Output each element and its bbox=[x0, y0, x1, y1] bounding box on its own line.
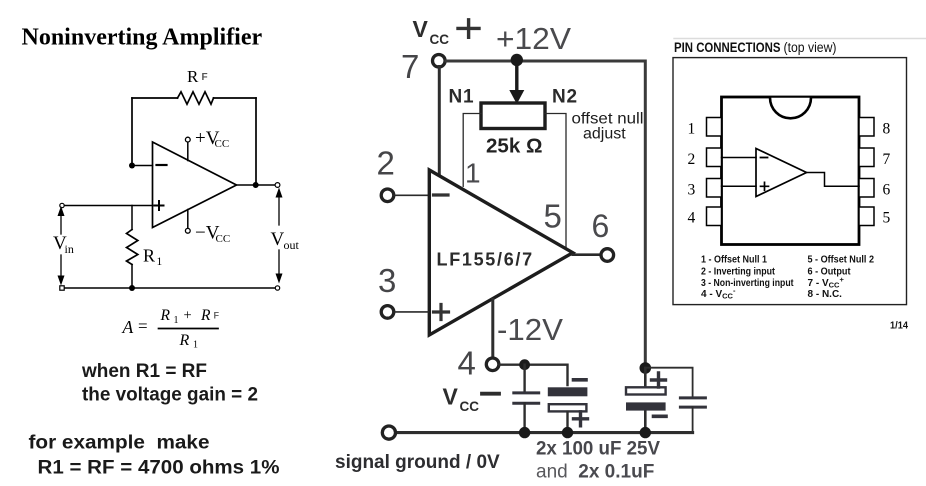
wire R1 bottom bbox=[131, 265, 133, 289]
junction dot gnd C3 bbox=[640, 427, 651, 438]
svg-text:2: 2 bbox=[377, 145, 395, 182]
svg-text:1: 1 bbox=[193, 339, 198, 350]
arrow Vout up bbox=[278, 194, 280, 225]
junction dot +12V arrow tap bbox=[511, 54, 523, 66]
svg-text:LF155/6/7: LF155/6/7 bbox=[437, 250, 534, 270]
svg-text:+: + bbox=[184, 308, 192, 324]
svg-text:out: out bbox=[284, 238, 300, 252]
svg-text:adjust: adjust bbox=[583, 126, 626, 143]
capacitor C3 label minus bbox=[654, 414, 667, 418]
capacitor C3 label plus bbox=[652, 373, 666, 387]
DIP notch bbox=[770, 98, 811, 118]
terminal Vin bbox=[60, 203, 64, 207]
svg-text:1: 1 bbox=[174, 315, 179, 326]
wire R1 top bbox=[131, 206, 133, 230]
op-amp minus dash bbox=[434, 193, 449, 196]
wire feedback top bbox=[132, 97, 256, 99]
svg-text:5: 5 bbox=[544, 198, 562, 235]
pin 1 stub bbox=[707, 118, 722, 137]
svg-text:2: 2 bbox=[688, 151, 696, 168]
svg-text:V: V bbox=[413, 16, 429, 42]
wire output step bbox=[807, 173, 860, 187]
svg-text:6: 6 bbox=[592, 208, 610, 244]
junction dot feedback node bbox=[129, 163, 135, 169]
svg-text:4: 4 bbox=[458, 345, 476, 382]
potentiometer 25k body bbox=[481, 103, 545, 129]
inner minus bbox=[761, 157, 768, 159]
terminal pin 3 bbox=[381, 306, 394, 319]
wire cap C4 bottom bbox=[692, 407, 694, 432]
svg-text:8: 8 bbox=[883, 121, 891, 138]
capacitor C3 100uF top plate bbox=[626, 387, 666, 394]
svg-text:R: R bbox=[200, 307, 211, 324]
wire +12V rail top bbox=[446, 61, 645, 368]
pin 4 stub bbox=[707, 207, 722, 226]
wire feedback left vertical bbox=[131, 98, 133, 166]
svg-text:F: F bbox=[214, 311, 220, 321]
inner op-amp triangle bbox=[756, 149, 807, 197]
svg-text:N2: N2 bbox=[552, 87, 578, 108]
svg-text:(top view): (top view) bbox=[784, 40, 837, 55]
svg-text:R1 = RF = 4700 ohms 1%: R1 = RF = 4700 ohms 1% bbox=[38, 457, 280, 479]
junction dot gnd C2 bbox=[562, 427, 573, 438]
svg-text:3: 3 bbox=[688, 182, 696, 199]
svg-text:7: 7 bbox=[401, 48, 419, 85]
svg-text:R: R bbox=[187, 67, 199, 86]
capacitor C1 0.1uF bbox=[514, 393, 539, 403]
junction dot pin4 node bbox=[519, 359, 530, 370]
svg-text:R: R bbox=[179, 332, 190, 349]
op-amp U1 triangle bbox=[153, 142, 237, 228]
svg-text:6: 6 bbox=[883, 182, 891, 199]
pin 6 stub bbox=[859, 179, 874, 198]
svg-text:1: 1 bbox=[157, 256, 163, 268]
wire cap C3 bottom bbox=[644, 412, 647, 433]
svg-text:1: 1 bbox=[688, 121, 696, 138]
svg-text:=: = bbox=[138, 317, 148, 336]
terminal pin 6 bbox=[601, 249, 614, 262]
terminal pin 7 bbox=[433, 55, 446, 68]
svg-text:4: 4 bbox=[688, 210, 696, 227]
wire feedback right vertical bbox=[255, 98, 257, 185]
resistor R1 bbox=[127, 230, 138, 265]
junction dot output node bbox=[253, 182, 259, 188]
svg-text:-12V: -12V bbox=[497, 312, 563, 347]
MIDDLE-SECTION bbox=[335, 16, 705, 483]
wire inverting input bbox=[132, 165, 153, 167]
capacitor C4 0.1uF bbox=[680, 398, 705, 407]
-VCC stub wire bbox=[187, 210, 189, 229]
+VCC terminal bbox=[185, 137, 190, 142]
svg-text:3: 3 bbox=[378, 262, 396, 299]
op-amp plus sign bbox=[434, 305, 449, 320]
LEFT-SECTION bbox=[22, 25, 300, 479]
svg-text:in: in bbox=[65, 242, 74, 256]
-VCC terminal bbox=[185, 228, 190, 233]
terminal pin 2 bbox=[381, 189, 394, 202]
wire pin 4 stub bbox=[491, 300, 494, 357]
svg-text:for example make: for example make bbox=[29, 432, 210, 454]
svg-text:7 - VCC+: 7 - VCC+ bbox=[808, 275, 845, 290]
junction dot bottom R1 bbox=[129, 285, 135, 291]
inner plus bbox=[761, 182, 769, 190]
wire branch to C4 bbox=[645, 368, 692, 398]
wire arrow to pot bbox=[515, 61, 518, 93]
capacitor C2 100uF bottom plate bbox=[549, 404, 587, 411]
pin 2 stub bbox=[707, 148, 722, 167]
svg-text:signal ground / 0V: signal ground / 0V bbox=[335, 452, 500, 473]
junction dot right rail to caps bbox=[640, 362, 652, 374]
resistor RF bbox=[178, 92, 214, 104]
svg-text:CC: CC bbox=[216, 233, 231, 245]
terminal signal ground bbox=[382, 426, 395, 439]
svg-text:R: R bbox=[160, 307, 171, 324]
RIGHT-SECTION bbox=[673, 39, 926, 332]
wire pot right to pin5 bbox=[545, 114, 566, 247]
svg-text:Noninverting Amplifier: Noninverting Amplifier bbox=[22, 25, 263, 51]
svg-text:CC: CC bbox=[215, 138, 230, 150]
arrow Vin up bbox=[60, 213, 62, 234]
wire pot left to pin1 bbox=[463, 114, 481, 187]
svg-text:2x 100 uF 25V: 2x 100 uF 25V bbox=[536, 439, 660, 460]
wire pin7 vertical bbox=[438, 67, 441, 174]
wire output bbox=[237, 184, 276, 186]
pin 3 stub bbox=[707, 179, 722, 198]
svg-text:CC: CC bbox=[430, 32, 450, 47]
wire pin3 to noninverting bbox=[722, 185, 757, 187]
svg-text:+12V: +12V bbox=[496, 21, 571, 56]
arrow Vin down bbox=[60, 255, 62, 278]
op-amp plus sign bbox=[155, 201, 164, 210]
op-amp LF155 triangle bbox=[429, 170, 573, 335]
op-amp minus sign bbox=[157, 164, 167, 166]
svg-text:N1: N1 bbox=[449, 87, 475, 108]
wire pin4 to caps bbox=[499, 365, 567, 385]
svg-text:6 - Output: 6 - Output bbox=[808, 266, 852, 277]
wire cap C2 bottom bbox=[566, 412, 568, 433]
wire cap C1 top bbox=[523, 365, 525, 393]
wire pin2 to inverting bbox=[722, 157, 757, 159]
arrow Vout down bbox=[278, 250, 280, 275]
svg-text:3 - Non-inverting input: 3 - Non-inverting input bbox=[701, 278, 794, 289]
wire ground rail bbox=[396, 431, 693, 434]
svg-text:when R1 = RF: when R1 = RF bbox=[81, 360, 207, 382]
capacitor C2 label minus bbox=[574, 378, 587, 382]
svg-text:1/14: 1/14 bbox=[890, 319, 908, 331]
svg-text:the voltage gain = 2: the voltage gain = 2 bbox=[82, 384, 258, 406]
svg-text:CC: CC bbox=[460, 399, 480, 414]
terminal Vout bbox=[275, 183, 280, 188]
svg-text:1 - Offset Null 1: 1 - Offset Null 1 bbox=[701, 255, 767, 266]
+VCC stub wire bbox=[187, 142, 189, 161]
panel border bbox=[673, 58, 907, 305]
svg-text:F: F bbox=[202, 72, 208, 83]
svg-text:V: V bbox=[271, 229, 285, 250]
capacitor C3 100uF bottom plate bbox=[626, 402, 666, 410]
terminal bottom-right bbox=[275, 286, 279, 290]
capacitor C2 100uF top plate bbox=[548, 387, 588, 396]
wire noninverting input bbox=[64, 205, 153, 207]
wire output pin 6 bbox=[573, 253, 601, 256]
terminal bottom-left square bbox=[60, 286, 64, 290]
wire pin 3 input bbox=[394, 311, 428, 313]
svg-text:V: V bbox=[443, 384, 459, 410]
svg-text:1: 1 bbox=[465, 158, 481, 189]
terminal pin 4 bbox=[486, 358, 499, 371]
wire pin 2 input bbox=[394, 194, 428, 196]
svg-text:8 - N.C.: 8 - N.C. bbox=[808, 289, 843, 300]
svg-text:5: 5 bbox=[883, 210, 891, 227]
junction dot gnd C1 bbox=[519, 427, 530, 438]
svg-text:R: R bbox=[143, 246, 155, 266]
DIP body U1 bbox=[722, 97, 860, 245]
svg-text:7: 7 bbox=[883, 151, 891, 168]
svg-text:2 - Inverting input: 2 - Inverting input bbox=[701, 266, 776, 277]
wire cap C1 bottom bbox=[523, 403, 525, 432]
svg-text:A: A bbox=[122, 317, 134, 337]
capacitor C2 label plus bbox=[574, 412, 588, 426]
svg-text:25k Ω: 25k Ω bbox=[486, 136, 543, 158]
pin 8 stub bbox=[859, 118, 874, 137]
wire bottom rail bbox=[64, 287, 278, 289]
faint page edge line bbox=[674, 38, 926, 40]
svg-text:and 2x 0.1uF: and 2x 0.1uF bbox=[536, 462, 654, 483]
svg-text:5 - Offset Null 2: 5 - Offset Null 2 bbox=[808, 255, 875, 266]
pin 5 stub bbox=[859, 207, 874, 226]
svg-text:PIN CONNECTIONS: PIN CONNECTIONS bbox=[674, 40, 781, 55]
pin 7 stub bbox=[859, 148, 874, 167]
wire right rail through C3 bbox=[644, 368, 647, 387]
